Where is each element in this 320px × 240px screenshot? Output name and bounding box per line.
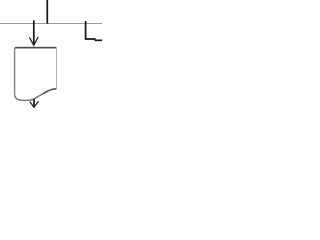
wire: right elbow connector (down then right) (86, 21, 96, 39)
document bottom wave (15, 89, 57, 101)
arrowhead out of document (30, 101, 39, 107)
wire: arrow shaft into document (33, 20, 35, 45)
document shape D1: left + top edges (15, 48, 57, 95)
arrowhead into document (29, 37, 38, 45)
document wave right portion (darker) (43, 89, 57, 94)
wire: clipped shape top edge at right margin (95, 39, 103, 41)
wire: black vertical line from top edge down to bus (46, 0, 48, 24)
wire: long gray horizontal bus line (0, 23, 102, 25)
wire: arrow shaft out of document (33, 99, 35, 107)
document right edge (lighter) (56, 48, 58, 88)
document top edge (darker) (15, 47, 56, 49)
